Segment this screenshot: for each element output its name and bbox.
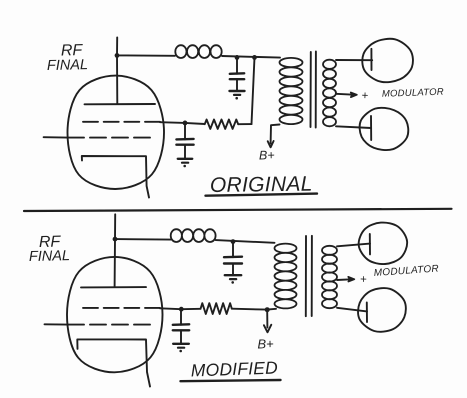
svg-text:FINAL: FINAL bbox=[29, 248, 70, 265]
node B2 junction dot (C3 tap) bbox=[231, 239, 236, 244]
arrowhead center tap (top) bbox=[351, 92, 357, 97]
label RF FINAL (bottom V4) bbox=[29, 234, 70, 265]
resistor R1 (screen dropper, top) bbox=[205, 120, 239, 129]
transformer T2 core bbox=[306, 236, 312, 316]
transformer T1 primary winding (top) bbox=[280, 58, 303, 124]
arrowhead B+ (bottom) bbox=[264, 325, 271, 333]
node D1 junction dot (screen node) bbox=[183, 121, 188, 126]
tube V6 plate bar bbox=[366, 303, 368, 323]
underline ORIGINAL bbox=[206, 194, 318, 196]
capacitor C4 with ground (screen bypass, bottom) bbox=[180, 311, 182, 325]
svg-text:B+: B+ bbox=[259, 148, 275, 162]
tube V5 modulator envelope (bottom upper) bbox=[359, 223, 408, 265]
transformer T1 secondary winding (top) bbox=[323, 60, 336, 127]
wire T2 secondary top to V5 (bottom) bbox=[337, 244, 370, 247]
wire plate lead V4 (bottom) bbox=[114, 239, 116, 287]
wire grid stub left (bottom) bbox=[45, 323, 68, 325]
wire center tap arrow shaft (bottom) bbox=[337, 278, 349, 281]
underline MODIFIED bbox=[181, 380, 281, 381]
node E2 junction dot (B+ node) bbox=[265, 307, 270, 312]
wire screen to C2 node (top) bbox=[160, 121, 185, 124]
wire screen to node (bottom) bbox=[160, 307, 181, 310]
wire screen feed drop (top) bbox=[252, 57, 255, 124]
tube V4 envelope (RF final, bottom) bbox=[67, 257, 163, 372]
wire C2 node to R1 (top) bbox=[185, 123, 205, 124]
node A2 junction dot (bottom plate node) bbox=[113, 237, 118, 242]
wire T1 secondary top to V2 (top) bbox=[336, 59, 372, 61]
tube V1 envelope (RF final, top) bbox=[67, 76, 164, 189]
tube V6 modulator envelope (bottom lower) bbox=[358, 288, 406, 332]
tube V1 control grid (dashed) bbox=[68, 137, 150, 139]
transformer T2 primary winding (bottom) bbox=[275, 244, 297, 309]
capacitor C3 with ground (plate bypass, bottom) bbox=[232, 243, 234, 258]
inductor L2 (plate RF choke, bottom) bbox=[171, 229, 216, 242]
tube V3 modulator envelope (top lower) bbox=[360, 108, 409, 150]
wire A1 to L1 (top) bbox=[117, 54, 175, 56]
resistor R2 (screen dropper, bottom) bbox=[201, 303, 232, 314]
tube V2 plate bar bbox=[370, 49, 372, 70]
node D2 junction dot (screen node, bottom) bbox=[179, 307, 184, 312]
capacitor C1 with ground (plate bypass, top) bbox=[236, 58, 238, 74]
wire node to R2 (bottom) bbox=[181, 308, 200, 310]
wire T1 secondary bottom to V3 (top) bbox=[336, 126, 371, 128]
tube V4 plate bar bbox=[81, 286, 146, 288]
wire grid stub left (top) bbox=[44, 136, 67, 138]
divider line bbox=[24, 209, 452, 211]
tube V4 screen grid (dashed) bbox=[83, 307, 160, 309]
transformer T1 core bbox=[311, 52, 316, 128]
svg-text:+: + bbox=[361, 90, 368, 102]
wire R1 to drop corner (top) bbox=[238, 123, 251, 125]
label RF FINAL (top V1) bbox=[47, 42, 88, 74]
wire T1 primary bottom to B+ corner (top) bbox=[271, 125, 280, 144]
wire plate lead V1 (top) bbox=[116, 55, 118, 104]
arrowhead B+ (top) bbox=[268, 141, 274, 147]
wire R2 to B+ node (bottom) bbox=[232, 308, 267, 311]
wire primary bottom joins B+ node (bottom) bbox=[267, 308, 276, 311]
svg-text:MODULATOR: MODULATOR bbox=[382, 87, 444, 100]
inductor L1 (plate RF choke, top) bbox=[175, 45, 221, 58]
transformer T2 secondary winding (bottom) bbox=[322, 246, 337, 308]
svg-text:MODULATOR: MODULATOR bbox=[373, 263, 439, 279]
wire A2 to L2 (bottom) bbox=[115, 238, 171, 241]
tube V1 screen grid (dashed) bbox=[83, 121, 160, 123]
node A1 junction dot (top plate node) bbox=[115, 53, 120, 58]
tube V1 cathode bbox=[82, 156, 149, 198]
wire B+ arrow shaft (bottom) bbox=[266, 311, 268, 328]
arrowhead center tap (bottom) bbox=[348, 277, 354, 282]
svg-text:FINAL: FINAL bbox=[47, 57, 88, 74]
node C1n junction dot (screen feed tap) bbox=[252, 55, 257, 60]
tube V4 cathode bbox=[77, 339, 150, 386]
tube V4 control grid (dashed) bbox=[68, 324, 150, 326]
capacitor C2 with ground (screen bypass, top) bbox=[184, 124, 186, 139]
svg-text:MODIFIED: MODIFIED bbox=[190, 357, 278, 380]
tube V5 plate bar bbox=[369, 234, 371, 254]
wire center tap arrow shaft (top) bbox=[336, 93, 351, 96]
svg-text:B+: B+ bbox=[257, 336, 274, 351]
wire L2 to T2 primary (bottom) bbox=[216, 240, 275, 243]
wire plate stub up (top) bbox=[116, 37, 118, 55]
wire L1 to T1 primary (top) bbox=[222, 56, 280, 58]
node B1 junction dot (C1 tap) bbox=[235, 55, 240, 60]
wire T2 secondary bottom to V6 (bottom) bbox=[337, 308, 367, 312]
tube V2 modulator envelope (top upper) bbox=[362, 39, 413, 82]
tube V3 plate bar bbox=[370, 116, 372, 140]
tube V1 plate bar bbox=[85, 103, 156, 105]
svg-text:+: + bbox=[360, 274, 367, 286]
wire plate stub up (bottom) bbox=[114, 214, 116, 239]
